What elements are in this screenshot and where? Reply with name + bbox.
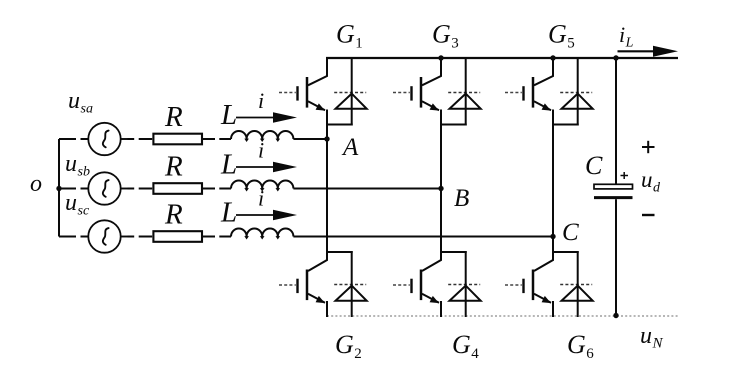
node C junction [550,234,555,239]
resistor R (c) [153,231,202,242]
diode D3: triangle (anode below, pointing up) [450,94,481,109]
wire: source to resistor R (c) [121,236,153,238]
wire: leg C vertical (node C down to G6) [552,125,554,252]
diode D2: vertical wire from jog through body to - rail [351,251,353,317]
IGBT G1: emitter vertical wire [326,110,328,126]
diode D5: cathode bar (dashed) [560,92,592,94]
svg-text:C: C [562,219,579,246]
IGBT G5: emitter arrow [542,103,551,110]
wire: capacitor branch lower [615,199,617,316]
diode D4: triangle (anode below, pointing up) [450,286,481,301]
svg-text:i: i [258,138,264,163]
IGBT G3: gate lead (dashed) [393,92,410,94]
junction: - rail / capacitor branch [613,313,618,318]
capacitor C top plate [594,184,633,189]
capacitor C polarity mark + [621,175,629,177]
wire: capacitor branch upper [615,58,617,184]
current arrow i (a) [236,117,276,119]
wire: bus to source u_sa [59,138,89,140]
wire: - DC rail (dotted) [327,315,678,317]
IGBT G5: collector lead from + rail [534,58,553,85]
diode D5: triangle (anode below, pointing up) [562,94,593,109]
IGBT G2: emitter arrow [316,296,325,303]
svg-text:i: i [258,88,264,113]
svg-text:A: A [341,134,359,161]
node B junction [438,186,443,191]
capacitor C bottom plate [594,196,633,199]
node A junction [324,136,329,141]
IGBT G2: collector lead from phase node [308,252,327,271]
IGBT G4: body bar [420,270,423,301]
IGBT G6: emitter vertical wire to - rail [552,301,554,317]
current arrow i_L head [653,46,678,57]
IGBT G5: emitter lead [534,101,551,110]
wire: resistor to inductor L (c) [202,236,231,238]
inductor L (c) [231,228,293,236]
current arrow i (c) [236,214,276,216]
IGBT G4: gate lead (dashed) [393,284,410,286]
wire: bus to source u_sb [59,188,89,190]
IGBT G6: body bar [532,270,535,301]
svg-text:C: C [585,151,603,180]
IGBT G2: gate lead (dashed) [279,284,296,286]
IGBT G1: gate bar [296,86,298,100]
diode D4: vertical wire from jog through body to - rail [465,251,467,317]
svg-text:L: L [220,197,237,229]
diode D1: triangle (anode below, pointing up) [336,94,367,109]
IGBT G6: gate bar [522,279,524,293]
diode D1: cathode bar (dashed) [334,92,366,94]
IGBT G6: emitter arrow [542,296,551,303]
junction: rail / leg 3 [438,55,443,60]
IGBT G4: gate bar [410,279,412,293]
IGBT G5: body bar [532,77,535,108]
wire: jog joining diode D1 anode to IGBT emitter [326,124,353,126]
AC source u_sa [88,123,120,155]
diode D6: cathode bar (dashed) [560,284,592,286]
svg-text:o: o [30,171,42,197]
AC source u_sb [88,172,120,204]
diode D2: triangle (anode below, pointing up) [336,286,367,301]
node o: neutral bus vertical wire [58,139,60,237]
wire: jog joining diode D6 cathode to IGBT collector [552,251,579,253]
diode D1: vertical wire from + rail through body to jog [351,57,353,126]
IGBT G6: gate lead (dashed) [505,284,522,286]
IGBT G5: gate bar [522,86,524,100]
wire: source to resistor R (b) [121,188,153,190]
IGBT G3: emitter arrow [430,103,439,110]
wire: resistor to inductor L (a) [202,138,231,140]
IGBT G4: emitter lead [422,294,439,303]
AC source u_sc [88,220,120,252]
svg-text:R: R [164,101,183,133]
IGBT G3: emitter lead [422,101,439,110]
IGBT G2: body bar [306,270,309,301]
IGBT G1: emitter arrow [316,103,325,110]
svg-text:R: R [164,199,183,231]
diode D5: vertical wire from + rail through body to jog [577,57,579,126]
IGBT G5: gate lead (dashed) [505,92,522,94]
IGBT G1: gate lead (dashed) [279,92,296,94]
junction: rail / leg 5 [550,55,555,60]
inductor L (b) [231,181,293,189]
node o junction [56,186,61,191]
wire: phase c to node C [293,236,553,238]
IGBT G5: emitter vertical wire [552,110,554,126]
diode D6: triangle (anode below, pointing up) [562,286,593,301]
resistor R (a) [153,134,202,145]
diode D3: cathode bar (dashed) [448,92,480,94]
label - (dc polarity) [642,214,655,216]
svg-text:R: R [164,151,183,183]
IGBT G3: gate bar [410,86,412,100]
wire: jog joining diode D4 cathode to IGBT collector [440,251,467,253]
diode D6: vertical wire from jog through body to - rail [577,251,579,317]
svg-text:B: B [454,185,469,212]
IGBT G3: emitter vertical wire [440,110,442,126]
junction: rail / capacitor branch [613,55,618,60]
wire: jog joining diode D5 anode to IGBT emitter [552,124,579,126]
IGBT G2: emitter vertical wire to - rail [326,301,328,317]
IGBT G3: body bar [420,77,423,108]
diode D2: cathode bar (dashed) [334,284,366,286]
svg-text:i: i [258,186,264,211]
svg-text:L: L [220,149,237,181]
label + (dc polarity) [642,146,655,148]
diode D3: vertical wire from + rail through body to jog [465,57,467,126]
wire: leg B vertical (node B down to G4) [440,125,442,252]
wire: jog joining diode D2 cathode to IGBT collector [326,251,353,253]
wire: phase a to node A [293,138,327,140]
IGBT G1: collector lead from + rail [308,58,327,85]
IGBT G4: emitter arrow [430,296,439,303]
IGBT G1: body bar [306,77,309,108]
wire: leg A vertical (node A down to G2) [326,125,328,252]
inductor L (a) [231,131,293,139]
wire: source to resistor R (a) [121,138,153,140]
IGBT G6: collector lead from phase node [534,252,553,271]
wire: phase b to node B [293,188,441,190]
current arrow i_L line [618,50,657,52]
diode D4: cathode bar (dashed) [448,284,480,286]
wire: + DC rail [326,57,678,59]
resistor R (b) [153,183,202,194]
svg-text:L: L [220,99,237,131]
IGBT G4: emitter vertical wire to - rail [440,301,442,317]
IGBT G1: emitter lead [308,101,325,110]
wire: resistor to inductor L (b) [202,188,231,190]
IGBT G3: collector lead from + rail [422,58,441,85]
IGBT G4: collector lead from phase node [422,252,441,271]
wire: jog joining diode D3 anode to IGBT emitter [440,124,467,126]
wire: bus to source u_sc [59,236,89,238]
current arrow i (b) [236,166,276,168]
IGBT G2: gate bar [296,279,298,293]
IGBT G6: emitter lead [534,294,551,303]
IGBT G2: emitter lead [308,294,325,303]
